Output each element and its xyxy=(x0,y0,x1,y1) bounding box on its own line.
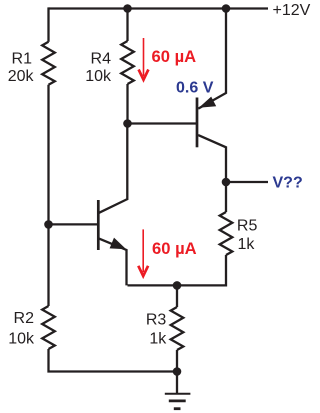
wire node to Q2 base xyxy=(128,122,197,124)
node emitter / R3 junction xyxy=(173,281,182,290)
transistor Q1 NPN base bar xyxy=(97,200,100,250)
svg-text:R4: R4 xyxy=(91,51,112,68)
resistor R3 zigzag xyxy=(171,307,184,350)
svg-text:R5: R5 xyxy=(237,218,258,235)
svg-text:1k: 1k xyxy=(238,236,256,253)
resistor R2 zigzag xyxy=(42,306,55,349)
wire Q1 emitter xyxy=(99,239,127,286)
wire left branch from rail to R1 xyxy=(47,7,49,41)
wire R3 bottom to ground xyxy=(176,350,178,393)
svg-text:60 µA: 60 µA xyxy=(152,239,197,258)
svg-text:0.6 V: 0.6 V xyxy=(176,80,214,97)
node junction top of R4 xyxy=(123,4,132,13)
wire Q2 emitter from +12V rail xyxy=(198,9,226,109)
wire Q1 collector up to node xyxy=(99,124,127,213)
node Vout junction xyxy=(222,178,231,187)
wire rail to R4 xyxy=(126,9,128,42)
svg-text:R3: R3 xyxy=(146,311,167,328)
wire Q2 collector xyxy=(198,135,226,182)
svg-text:10k: 10k xyxy=(85,68,112,85)
wire R1 bottom to R2 top xyxy=(47,85,49,306)
svg-text:60 µA: 60 µA xyxy=(152,47,197,66)
transistor Q2 PNP base bar xyxy=(196,98,199,148)
wire top rail +12V xyxy=(49,7,269,9)
resistor R4 zigzag xyxy=(121,41,134,84)
wire Q1 base xyxy=(49,223,98,225)
svg-text:1k: 1k xyxy=(149,330,167,347)
wire R4 bottom to node xyxy=(126,84,128,124)
svg-text:10k: 10k xyxy=(8,331,35,348)
node junction top of Q2 emitter xyxy=(222,4,231,13)
wire node to R5 xyxy=(225,182,227,212)
Q1 emitter arrowhead (NPN, points out) xyxy=(110,238,127,250)
node R4 / Q1 collector / Q2 base xyxy=(123,119,132,128)
wire R2 bottom to ground node xyxy=(49,349,178,372)
svg-text:R1: R1 xyxy=(12,51,33,68)
resistor R5 zigzag xyxy=(220,212,233,255)
svg-text:R2: R2 xyxy=(14,310,35,327)
current arrow 60uA through emitter xyxy=(138,229,148,276)
wire node to V?? label xyxy=(226,181,268,183)
resistor R1 zigzag xyxy=(42,42,55,85)
wire node to R3 xyxy=(176,285,178,307)
node ground junction xyxy=(173,367,182,376)
wire R5 bottom to emitter rail xyxy=(128,255,227,285)
node Q1 base junction xyxy=(44,220,53,229)
svg-text:20k: 20k xyxy=(8,68,35,85)
current arrow 60uA through R4 xyxy=(139,38,149,80)
ground symbol xyxy=(165,394,191,409)
svg-text:+12V: +12V xyxy=(273,2,311,19)
Q2 emitter arrowhead (PNP, points into base) xyxy=(199,97,216,108)
svg-text:V??: V?? xyxy=(273,175,303,192)
